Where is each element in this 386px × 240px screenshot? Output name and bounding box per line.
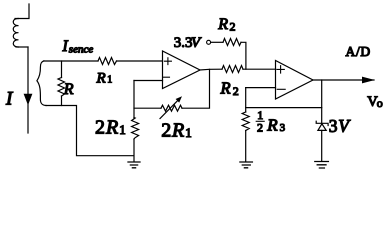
wire feedback op-amp U2: [321, 80, 323, 123]
wire R2 lower to junction to op-amp U2: [243, 68, 276, 70]
svg-text:V: V: [338, 116, 351, 136]
svg-text:2: 2: [230, 19, 236, 33]
wire op-amp U1 output to op-amp U2 + input: [200, 68, 222, 71]
svg-text:R: R: [105, 117, 118, 139]
op-amp U2 minus sign: [277, 88, 285, 90]
variable resistor arrow: [160, 101, 178, 119]
wire 2R1 bottom lead: [133, 139, 135, 162]
svg-text:3: 3: [329, 116, 338, 136]
zener diode triangle: [318, 124, 326, 131]
wire feedback bottom run: [134, 107, 161, 109]
svg-text:1: 1: [107, 75, 112, 86]
svg-text:2: 2: [257, 121, 263, 135]
wire zener to ground: [321, 130, 323, 161]
wire R2 upper to junction: [241, 42, 246, 69]
resistor R2 lower (horizontal zigzag): [222, 66, 243, 73]
wire op-amp U1 inverting input: [134, 80, 163, 82]
resistor half R3 (vertical zigzag): [242, 112, 249, 131]
svg-text:2: 2: [161, 120, 171, 142]
wire variable resistor to output node: [182, 69, 210, 108]
svg-text:I: I: [62, 38, 69, 55]
wire top lead of inductor: [15, 4, 29, 19]
wire bottom lead of inductor: [16, 46, 28, 48]
resistor R (vertical zigzag): [58, 78, 65, 97]
ground 3: [315, 162, 329, 169]
op-amp U2: [276, 61, 314, 100]
wire brace-shaped tap: [37, 61, 46, 106]
wire sense node to R1: [44, 60, 99, 62]
op-amp U1 minus sign: [163, 76, 169, 78]
wire bottom of left section: [46, 106, 134, 156]
svg-text:R: R: [217, 16, 228, 33]
svg-text:R: R: [171, 120, 184, 142]
svg-text:R: R: [220, 79, 231, 98]
svg-text:R: R: [266, 116, 278, 135]
svg-text:o: o: [377, 96, 383, 110]
wire feedback horizontal: [246, 107, 322, 109]
ground 2: [240, 162, 253, 168]
op-amp U1 plus sign: [164, 58, 171, 65]
svg-text:R: R: [63, 81, 74, 98]
svg-text:1: 1: [185, 125, 192, 140]
wire R bottom lead: [61, 96, 63, 106]
wire inverting node vertical: [133, 81, 135, 119]
svg-text:R: R: [96, 70, 106, 86]
svg-text:3.3: 3.3: [174, 35, 193, 51]
svg-text:V: V: [191, 35, 202, 51]
wire 3.3V to R2: [211, 41, 223, 43]
wire inverting node down: [245, 88, 247, 112]
inductor L (4 bumps): [13, 18, 18, 47]
resistor R2 upper (horizontal zigzag): [223, 39, 241, 46]
resistor 2R1 (vertical zigzag): [132, 118, 139, 140]
svg-text:A/D: A/D: [346, 44, 371, 59]
wire op-amp U2 inverting input: [246, 87, 276, 89]
svg-text:2: 2: [95, 117, 105, 139]
ground 1: [128, 162, 140, 168]
op-amp U2 plus sign: [277, 66, 284, 73]
output arrowhead to A/D: [362, 77, 375, 84]
wire main conductor: [27, 47, 29, 133]
variable resistor 2R1 (zigzag): [161, 105, 182, 111]
wire half R3 bottom lead: [245, 131, 247, 162]
svg-text:sence: sence: [69, 44, 94, 56]
wire R1 to op-amp + input: [117, 60, 163, 62]
zener diode bar: [316, 121, 328, 125]
svg-text:I: I: [5, 89, 14, 110]
current arrow I: [24, 94, 33, 105]
wire op-amp U2 output: [313, 79, 374, 81]
terminal circle 3.3V: [207, 40, 211, 44]
svg-text:2: 2: [233, 84, 239, 98]
svg-text:3: 3: [280, 122, 286, 134]
wire R top lead: [61, 61, 63, 78]
op-amp U1: [163, 51, 201, 89]
resistor R1 (horizontal zigzag): [98, 58, 117, 65]
svg-text:1: 1: [119, 122, 126, 137]
